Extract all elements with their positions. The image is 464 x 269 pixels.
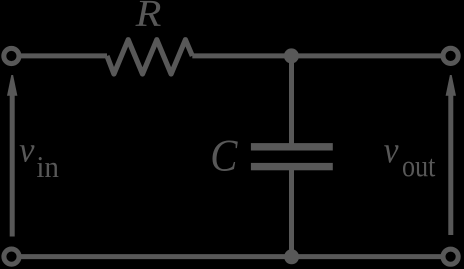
terminal: input negative (open circle, bottom-left) [4,249,19,264]
label R (resistor designator) [135,1,160,26]
wire: bottom rail (ground return, input to output terminal through node) [13,254,449,259]
label v_in (input voltage) [20,145,59,177]
arrow: v_out reference direction (pointing up) [446,75,456,235]
wire: capacitor top lead (node to top plate) [289,57,294,145]
wire: top rail right segment (resistor to output terminal, through node) [192,53,449,58]
wire: top rail left segment (input terminal to resistor) [13,53,107,58]
label v_out (output voltage) [384,145,435,176]
label C (capacitor designator) [213,141,238,172]
terminal: output positive (open circle, top-right) [443,48,458,63]
terminal: input positive (open circle, top-left) [4,48,19,63]
wire: capacitor bottom lead (bottom plate to bottom node) [289,168,294,255]
arrow: v_in reference direction (pointing up) [7,75,17,237]
resistor R [107,40,192,74]
capacitor C [251,143,333,170]
terminal: output negative (open circle, bottom-right) [443,249,458,264]
node junction A (top, resistor/capacitor/output) [284,48,299,63]
node junction B (bottom, capacitor/ground rail) [284,249,299,264]
